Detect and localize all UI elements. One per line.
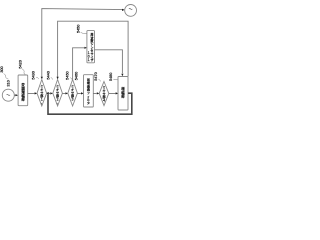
wire B to junction <box>47 92 49 94</box>
wire junction to C <box>48 92 50 94</box>
svg-text:ザ: ザ <box>90 57 93 62</box>
wire G out bottom feedback <box>48 93 132 114</box>
svg-text:４: ４ <box>102 99 105 103</box>
svg-text:300: 300 <box>0 66 4 72</box>
wire source to A <box>14 94 16 96</box>
arrowhead into mixer C top <box>57 77 59 80</box>
wire E to F <box>93 92 96 94</box>
leader 5470 <box>98 79 100 81</box>
svg-text:5460: 5460 <box>74 72 78 80</box>
svg-text:タ: タ <box>87 100 90 105</box>
svg-text:↑: ↑ <box>57 103 58 106</box>
leader 5420 <box>22 69 25 75</box>
svg-text:↑: ↑ <box>41 103 42 106</box>
block filter E 5460 <box>84 75 94 107</box>
arrowhead into G <box>116 92 119 94</box>
wire A to B <box>28 92 35 94</box>
arrowhead into D <box>65 92 68 94</box>
arrowhead into E <box>81 92 84 94</box>
source circle 310 <box>2 89 14 101</box>
svg-text:３: ３ <box>71 98 74 102</box>
svg-text:310: 310 <box>7 80 11 86</box>
wire C to D <box>62 92 65 94</box>
svg-text:5480: 5480 <box>109 73 113 81</box>
arrowhead into C <box>50 92 53 94</box>
mixer C <box>53 80 63 107</box>
svg-text:5450: 5450 <box>77 25 81 33</box>
wire D top tap to synthesizer <box>73 48 85 79</box>
leader 5430 <box>36 77 39 79</box>
block synthesizer 5452 <box>87 31 95 63</box>
svg-text:5440: 5440 <box>46 71 50 79</box>
junction node 5440 <box>47 92 49 94</box>
wire inner loop <box>58 21 129 78</box>
leader 300 <box>4 74 9 80</box>
arrowhead into B <box>35 92 38 94</box>
wire D to E <box>77 92 81 94</box>
wire outer feedback top <box>42 9 124 79</box>
output terminal circle <box>125 4 137 16</box>
mixer B 5430 <box>37 80 47 107</box>
arrowhead into F <box>97 92 100 94</box>
arrowhead into synthesizer <box>84 47 87 49</box>
svg-text:１: １ <box>87 58 90 62</box>
leader 5452 <box>81 32 87 33</box>
svg-text:１: １ <box>40 98 43 102</box>
arrowhead into mixer B top <box>41 77 43 80</box>
svg-text:5420: 5420 <box>19 60 23 68</box>
arrowhead into G top <box>121 74 123 77</box>
wire F to G <box>109 92 116 94</box>
svg-text:5450: 5450 <box>66 71 70 79</box>
mixer D <box>68 80 78 107</box>
arrowhead into A <box>16 94 19 96</box>
wire synthesizer out to G top <box>95 50 123 74</box>
arrowhead into output circle <box>122 9 125 11</box>
block amp G 5480 <box>118 77 128 111</box>
leader 5450 <box>70 78 72 80</box>
mixer F <box>99 82 109 106</box>
block 5420 <box>18 75 28 106</box>
leader 5480 <box>113 78 117 81</box>
svg-text:２: ２ <box>56 98 59 102</box>
svg-text:5430: 5430 <box>31 71 35 79</box>
leader 5440 <box>51 77 53 79</box>
svg-text:5470: 5470 <box>94 72 98 80</box>
